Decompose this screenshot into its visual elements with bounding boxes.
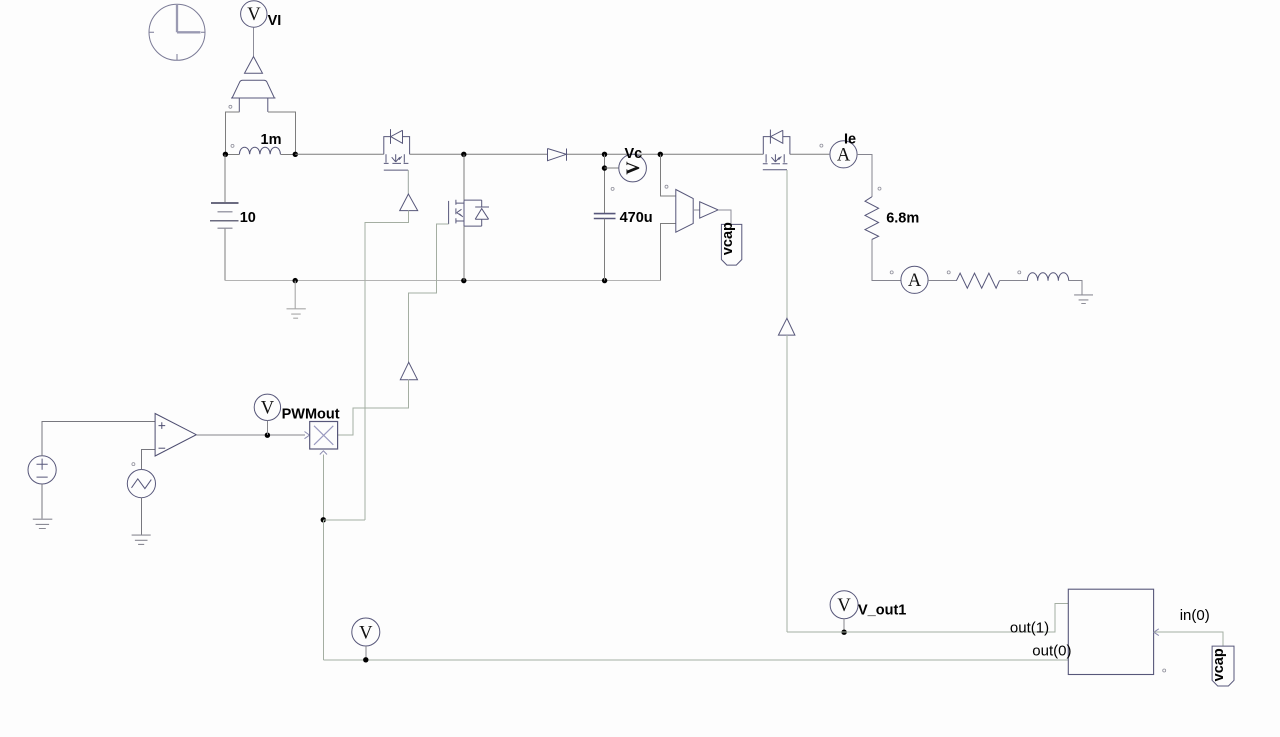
svg-text:V: V <box>624 161 644 175</box>
pwm block input arrow <box>305 432 310 439</box>
mosfet Q1 <box>384 129 410 170</box>
resistor load <box>956 273 999 288</box>
wire voltmeter stub <box>266 421 268 436</box>
svg-text:vcap: vcap <box>1211 648 1227 681</box>
ground <box>287 281 306 319</box>
svg-text:V_out1: V_out1 <box>858 603 906 619</box>
gate driver arrow Q1 <box>400 194 418 211</box>
mux <box>676 190 693 233</box>
svg-text:out(1): out(1) <box>1010 619 1049 636</box>
wire V_out1 stub <box>843 619 845 633</box>
port marker o <box>820 144 823 147</box>
dc source Vref <box>28 456 56 484</box>
ground <box>132 535 151 544</box>
wire to mux input 1 <box>660 154 676 196</box>
wire out(0) net horizontal <box>323 659 1068 661</box>
node junction <box>321 517 326 522</box>
svg-text:V: V <box>261 399 275 419</box>
wire Vref to ground <box>41 484 43 519</box>
node junction <box>223 152 228 157</box>
wire out(1) net <box>787 604 1068 633</box>
node junction <box>461 278 466 283</box>
wire to mux input 2 <box>661 224 676 281</box>
wire A2 to load resistor <box>928 280 956 282</box>
svg-text:Vc: Vc <box>625 146 643 162</box>
wire load R to L <box>1000 280 1028 282</box>
pwm block bottom arrow <box>320 451 327 455</box>
wire Q1 gate <box>407 170 409 194</box>
ground <box>33 519 53 528</box>
node junction <box>658 152 663 157</box>
wire probe right leg <box>268 112 296 154</box>
node junction <box>841 630 846 635</box>
wire probe left leg <box>225 112 239 154</box>
wire Q3 gate net from block out(1) <box>786 335 788 632</box>
wire top rail segments <box>295 153 829 155</box>
wire to ground <box>1069 281 1083 295</box>
port marker o <box>665 185 668 188</box>
triangle wave source <box>127 470 155 498</box>
port marker o <box>1163 669 1166 672</box>
node junction <box>602 165 607 170</box>
wire Vref to op-amp plus <box>42 421 155 456</box>
svg-text:1m: 1m <box>261 132 282 148</box>
diode D2 antiparallel <box>475 200 489 226</box>
svg-text:10: 10 <box>240 210 256 226</box>
node junction <box>602 278 607 283</box>
wire C1 to rail <box>604 219 606 281</box>
ground <box>1074 295 1093 304</box>
gate driver arrow Q3 <box>778 318 795 335</box>
wire voltmeter signal stub <box>253 28 255 56</box>
diode D1 <box>548 149 567 161</box>
wire to voltmeter Vc <box>605 167 619 169</box>
svg-text:PWMout: PWMout <box>282 407 340 423</box>
wire Q3 gate <box>786 170 788 319</box>
gate driver arrow Q2 <box>400 362 417 379</box>
voltmeter V2 <box>352 618 380 646</box>
svg-text:Ie: Ie <box>844 132 856 148</box>
port marker o <box>231 144 234 147</box>
svg-text:in(0): in(0) <box>1180 607 1210 624</box>
svg-text:V: V <box>359 623 373 643</box>
clock icon <box>149 4 206 60</box>
wire source to ground <box>140 498 142 535</box>
wire Vc tap <box>604 154 606 213</box>
wire V2 stub <box>365 646 367 660</box>
port marker o <box>229 105 232 108</box>
port marker o <box>611 187 614 190</box>
wire ammeter to resistor <box>857 154 872 197</box>
port marker o <box>947 271 950 274</box>
port marker o <box>1018 271 1021 274</box>
voltmeter Vc <box>619 146 647 182</box>
inductor load <box>1027 273 1068 281</box>
voltmeter V_out1 <box>830 591 906 619</box>
port marker o <box>890 271 893 274</box>
node junction <box>461 152 466 157</box>
wire junction to gate net <box>323 519 365 521</box>
node junction <box>363 657 368 662</box>
signal arrow up <box>245 57 263 74</box>
tag vcap <box>720 222 742 265</box>
op-amp U1 <box>155 414 196 457</box>
svg-text:470u: 470u <box>620 210 653 226</box>
port marker o <box>878 187 881 190</box>
node junction <box>293 278 298 283</box>
wire to tag vcap <box>718 210 731 225</box>
resistor 6.8m <box>865 197 879 240</box>
wire op-amp output <box>196 434 304 436</box>
pwm block <box>310 422 338 450</box>
svg-text:A: A <box>908 271 922 291</box>
node junction <box>293 152 298 157</box>
voltmeter probe <box>231 80 276 112</box>
capacitor C1 470u <box>594 214 616 219</box>
battery V1 10 <box>224 154 226 203</box>
svg-text:V: V <box>247 5 261 25</box>
wire Q2 drain <box>463 154 465 200</box>
port marker o <box>132 463 135 466</box>
node junction <box>265 433 270 438</box>
signal arrow right <box>693 202 718 218</box>
block input arrow in(0) <box>1154 629 1159 636</box>
wire Q1 gate net <box>365 211 409 520</box>
tag vcap 2 <box>1211 646 1234 686</box>
voltmeter VI <box>241 1 282 29</box>
mosfet Q3 <box>763 130 790 170</box>
node junction <box>602 152 607 157</box>
wire Q2 source to rail <box>463 226 465 281</box>
inductor L1 1m <box>225 147 295 154</box>
svg-text:vcap: vcap <box>720 222 736 255</box>
wire pwm bottom input <box>322 455 324 520</box>
ammeter Ie <box>830 132 857 168</box>
wire junction down to out(0) net <box>322 520 324 660</box>
wire PWM out to gate driver Q2 <box>338 380 409 436</box>
svg-text:6.8m: 6.8m <box>886 211 919 227</box>
svg-text:out(0): out(0) <box>1032 643 1071 660</box>
wire Q2 gate net <box>409 224 449 362</box>
mosfet Q2 <box>449 200 482 226</box>
wire resistor to ammeter A2 <box>872 240 901 281</box>
svg-text:VI: VI <box>268 13 282 29</box>
svg-text:V: V <box>837 596 851 616</box>
svg-text:A: A <box>837 146 851 166</box>
subsystem block <box>1068 589 1153 674</box>
wire in(0) from tag <box>1154 632 1223 646</box>
wire source to op-amp minus <box>141 450 155 470</box>
ammeter A2 <box>901 266 928 293</box>
wire bottom rail <box>225 280 661 282</box>
voltmeter PWMout <box>254 394 340 423</box>
